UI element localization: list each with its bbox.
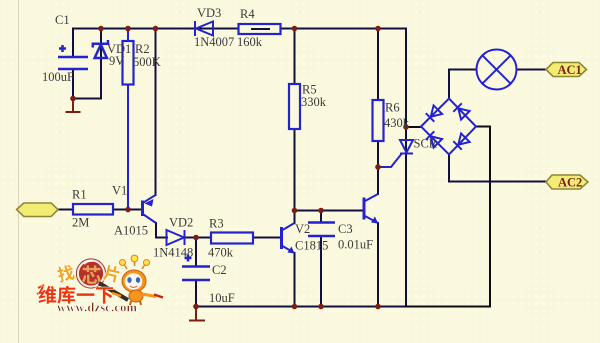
svg-text:330k: 330k <box>301 95 327 109</box>
resistor R6 <box>373 100 384 141</box>
svg-text:470k: 470k <box>208 246 234 260</box>
wire lamp to AC1 <box>517 69 547 71</box>
wire V1 emitter down <box>155 223 157 238</box>
wire V3 collector up <box>377 167 379 194</box>
svg-text:R3: R3 <box>209 217 224 231</box>
wire R2 bottom pin to V1 base <box>127 85 129 210</box>
transistor V1 (PNP A1015) <box>143 195 157 223</box>
watermark text 芯 <box>82 265 101 283</box>
wire R5 bottom pin <box>294 129 296 211</box>
watermark magnifier handle <box>99 283 128 300</box>
transistor V3 (NPN) <box>364 194 378 224</box>
svg-text:C3: C3 <box>338 222 353 236</box>
svg-text:10uF: 10uF <box>209 291 235 305</box>
svg-text:0.01uF: 0.01uF <box>338 238 373 252</box>
svg-text:www.dzsc.com: www.dzsc.com <box>57 301 138 315</box>
svg-text:V1: V1 <box>112 184 127 198</box>
svg-text:100uF: 100uF <box>42 70 74 84</box>
svg-text:C1815: C1815 <box>295 239 328 253</box>
svg-text:500K: 500K <box>133 55 161 69</box>
wire VD2 to R3 <box>185 237 211 239</box>
wire R5 top pin <box>294 29 296 85</box>
wire bottom rail right black <box>406 306 490 308</box>
bridge diode top-left <box>426 105 442 121</box>
wire C1 top lead <box>72 29 74 58</box>
bridge diode bottom-left <box>426 131 442 147</box>
port AC1 <box>546 63 587 77</box>
wire bridge bottom corner to AC2 <box>449 155 546 182</box>
svg-text:AC1: AC1 <box>558 63 582 77</box>
wire R1 to V1 base <box>113 209 142 211</box>
input port connector <box>17 203 58 217</box>
wire C1 bottom lead <box>72 69 74 99</box>
wire V1 collector vertical <box>155 29 157 196</box>
ground symbol at C2 <box>189 307 205 321</box>
wire R6 top pin <box>377 29 379 101</box>
wire V2 collector up <box>294 211 296 224</box>
ground symbol at C1 <box>66 99 81 113</box>
svg-text:C1: C1 <box>55 13 70 27</box>
wire SCR anode/cathode vertical <box>405 29 407 307</box>
svg-text:9V: 9V <box>109 54 124 68</box>
C1 plus sign <box>59 47 66 50</box>
svg-text:SCR: SCR <box>414 137 438 151</box>
svg-text:430k: 430k <box>384 116 410 130</box>
capacitor C2 plates <box>182 265 210 268</box>
svg-text:VD2: VD2 <box>169 216 193 230</box>
capacitor C1 plates <box>58 56 88 59</box>
wire bottom rail <box>196 306 406 308</box>
bridge rectifier diamond <box>421 99 476 155</box>
wire SCR line to bridge left corner <box>406 126 421 128</box>
wire V2 emitter down <box>294 253 296 307</box>
svg-text:1N4007: 1N4007 <box>194 35 234 49</box>
wire VD1 bottom lead <box>100 44 102 99</box>
watermark text 片 <box>102 264 120 283</box>
transistor V2 (NPN C1815) <box>282 223 295 254</box>
lamp <box>477 50 517 90</box>
wire VD1 top lead <box>100 29 102 44</box>
svg-text:160k: 160k <box>237 35 263 49</box>
svg-text:C2: C2 <box>212 263 227 277</box>
svg-text:VD3: VD3 <box>197 6 221 20</box>
resistor R3 <box>211 233 253 244</box>
wire C3 top lead <box>320 211 322 223</box>
wire R6 bottom pin <box>377 141 379 167</box>
svg-text:AC2: AC2 <box>558 176 582 190</box>
wire C3 bottom lead <box>320 236 322 307</box>
resistor R1 <box>73 204 113 215</box>
watermark text 维库一下 <box>38 286 56 304</box>
wire R2 top pin <box>127 29 129 42</box>
resistor R5 <box>289 84 300 129</box>
watermark mascot <box>120 255 164 305</box>
svg-text:V2: V2 <box>295 222 310 236</box>
bridge diode bottom-right <box>453 133 469 149</box>
resistor R4 <box>239 24 281 34</box>
capacitor C3 plates <box>308 221 335 224</box>
wire top rail <box>73 28 406 30</box>
resistor R2 <box>123 41 134 85</box>
svg-text:R4: R4 <box>240 7 255 21</box>
diode VD2 <box>167 230 185 245</box>
R4 internal wire stub <box>251 28 270 30</box>
diode VD3 <box>195 21 213 36</box>
C2 plus sign <box>185 257 192 260</box>
watermark logo <box>37 255 163 314</box>
wire SCR gate <box>378 155 401 168</box>
watermark text 找 <box>56 264 75 283</box>
wire V3 emitter down <box>377 223 379 307</box>
svg-text:1N4148: 1N4148 <box>153 246 193 260</box>
svg-text:R6: R6 <box>385 101 400 115</box>
wire C1 to VD1 <box>73 98 101 100</box>
thyristor SCR <box>400 140 413 154</box>
zener diode VD1 <box>95 45 107 59</box>
wire bridge right corner down <box>476 127 490 307</box>
svg-text:R1: R1 <box>72 188 87 202</box>
wire R3 to V2 base <box>253 237 281 239</box>
wire C2 bottom lead <box>195 280 197 307</box>
wire C2 top lead <box>195 238 197 267</box>
svg-text:A1015: A1015 <box>114 224 148 238</box>
wire input to R1 <box>58 209 73 211</box>
sheet border line <box>18 0 20 343</box>
bridge diode top-right <box>453 103 469 119</box>
wire V1 to VD2 <box>156 237 167 239</box>
wire bridge top corner to lamp <box>449 70 477 99</box>
wire mid node R5/V2/C3/V3 <box>295 210 365 212</box>
watermark speed lines <box>38 285 44 288</box>
watermark magnifier <box>79 261 104 286</box>
junction node dots <box>70 26 409 310</box>
svg-text:R2: R2 <box>135 42 150 56</box>
port AC2 <box>546 175 588 189</box>
svg-text:2M: 2M <box>72 216 89 230</box>
